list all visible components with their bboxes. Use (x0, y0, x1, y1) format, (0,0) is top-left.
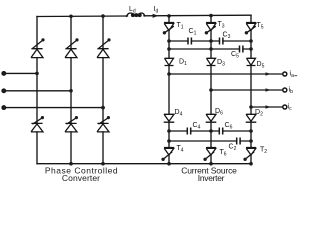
svg-text:D2: D2 (255, 109, 263, 118)
node C2 line leg3 (249, 139, 253, 143)
svg-text:T1: T1 (177, 22, 184, 31)
wire inverter leg 3 (D2 to T2) (250, 122, 252, 147)
thyristor T3 (205, 23, 216, 35)
wire inverter leg 2 (T3 to D3) (210, 31, 212, 58)
diode D3 (207, 58, 216, 65)
wire inverter leg 2 (T3 anode) (210, 16, 212, 23)
terminal input c (2, 106, 6, 110)
wire output phase a (169, 73, 283, 75)
svg-text:C6: C6 (225, 122, 233, 131)
arrow ib (266, 88, 271, 92)
arrow ic (266, 105, 271, 109)
diode D4 (164, 114, 175, 122)
wire inverter leg 1 (D1 to D4) (168, 66, 170, 114)
wire converter leg 1 middle (36, 58, 38, 124)
svg-text:T2: T2 (260, 147, 267, 156)
node C5 line leg2 (209, 47, 213, 51)
terminal input b (2, 89, 6, 93)
node top rail leg3 (101, 14, 105, 18)
svg-text:D4: D4 (175, 109, 183, 118)
capacitor C6 plates (219, 128, 222, 135)
node C2 line leg1 (167, 139, 171, 143)
wire converter leg 1 lower (36, 132, 38, 164)
wire converter leg 3 middle (102, 58, 104, 124)
node output b (209, 88, 213, 92)
svg-text:ia: ia (290, 71, 295, 80)
svg-text:T5: T5 (257, 22, 264, 31)
thyristor T1 (163, 23, 174, 35)
diode D6 (206, 114, 217, 122)
node C4 line leg1 (167, 129, 171, 133)
svg-text:T4: T4 (177, 145, 184, 154)
terminal output c (283, 105, 287, 109)
capacitor C5 plates (240, 46, 243, 53)
node top rail T1 (167, 14, 171, 18)
node C1 line leg2 (209, 39, 213, 43)
node output a (167, 72, 171, 76)
svg-text:D1: D1 (179, 59, 187, 68)
thyristor T2 (243, 148, 256, 162)
wire converter leg 1 upper (36, 17, 38, 49)
node bottom rail T2 (249, 162, 253, 166)
node top rail leg2 (69, 14, 73, 18)
node input b (69, 89, 73, 93)
arrow ia (266, 72, 271, 76)
capacitor C4 plates (187, 128, 190, 135)
thyristor SCR converter top 1 (31, 38, 45, 57)
wire input phase a (6, 72, 38, 74)
svg-text:T3: T3 (218, 21, 225, 30)
node input a (35, 72, 39, 76)
wire inverter leg 2 (D3 to D6) (210, 66, 212, 114)
svg-text:ic: ic (288, 104, 293, 113)
svg-text:Inverter: Inverter (198, 173, 225, 183)
thyristor T4 (161, 148, 174, 162)
svg-text:C1: C1 (189, 28, 197, 37)
node C5 line leg3 (249, 47, 253, 51)
thyristor SCR converter top 2 (65, 38, 79, 57)
diode D2 (246, 114, 257, 122)
node bottom rail leg3 (101, 162, 105, 166)
diode D1 (165, 58, 174, 65)
svg-text:D5: D5 (257, 61, 265, 70)
thyristor SCR converter bottom 2 (65, 116, 78, 132)
svg-text:C2: C2 (229, 144, 237, 153)
wire inverter leg 3 (T2 to rail) (250, 155, 252, 164)
diode D5 (247, 58, 256, 65)
svg-text:Id: Id (154, 6, 159, 15)
wire inverter leg 1 (T4 to rail) (168, 155, 170, 164)
thyristor T5 (245, 23, 256, 35)
wire inverter leg 1 (T1 anode) (168, 16, 170, 23)
svg-text:C4: C4 (193, 122, 201, 131)
wire converter leg 2 upper (70, 16, 72, 48)
wire converter leg 2 middle (70, 58, 72, 124)
svg-text:Converter: Converter (62, 173, 100, 183)
node C5 line leg1 (167, 47, 171, 51)
wire capacitor line C1-C3 (169, 40, 251, 42)
wire capacitor line C2 (169, 140, 251, 142)
wire converter leg 3 upper (102, 16, 104, 49)
node C4 line leg2 (209, 129, 213, 133)
wire converter leg 2 lower (70, 132, 72, 164)
wire converter leg 3 lower (102, 132, 104, 164)
thyristor SCR converter bottom 1 (31, 116, 44, 132)
wire input phase c (6, 107, 104, 109)
node bottom rail T4 (167, 162, 171, 166)
wire bottom rail (37, 163, 251, 165)
wire capacitor line C5 (169, 48, 251, 50)
inductor Ld (127, 13, 145, 17)
node input c (101, 106, 105, 110)
wire inverter leg 1 (T1 to D1) (168, 31, 170, 58)
wire input phase b (6, 90, 72, 92)
capacitor C3 plates (220, 38, 223, 45)
wire capacitor line C4-C6 (169, 130, 251, 132)
wire inverter leg 3 (T5 anode) (250, 15, 252, 22)
terminal output b (283, 88, 287, 92)
wire top rail inverter section (144, 14, 251, 17)
node bottom rail T6 (209, 162, 213, 166)
wire inverter leg 3 (D5 to D2) (250, 66, 252, 114)
wire inverter leg 1 (D4 to T4) (168, 122, 170, 147)
capacitor C1 plates (188, 38, 191, 45)
svg-text:T6: T6 (220, 149, 227, 158)
node bottom rail leg2 (69, 162, 73, 166)
thyristor SCR converter bottom 3 (97, 116, 110, 132)
svg-text:C5: C5 (231, 51, 239, 60)
wire output phase c (251, 106, 283, 108)
svg-text:D3: D3 (217, 59, 225, 68)
svg-text:ib: ib (289, 87, 294, 96)
wire inverter leg 2 (D6 to T6) (210, 122, 212, 147)
wire output phase b (211, 89, 283, 91)
terminal output a (283, 72, 287, 76)
wire top rail converter section (37, 15, 128, 18)
svg-text:C3: C3 (223, 32, 231, 41)
node C3 line leg3 (249, 39, 253, 43)
capacitor C2 plates (237, 138, 240, 145)
wire inverter leg 3 (T5 to D5) (250, 31, 252, 58)
node C1 line leg1 (167, 39, 171, 43)
arrow Id (153, 14, 159, 18)
wire inverter leg 2 (T6 to rail) (210, 155, 212, 164)
node output c (249, 105, 253, 109)
thyristor T6 (203, 148, 216, 162)
node top rail T3 (209, 14, 213, 18)
thyristor SCR converter top 3 (97, 38, 111, 57)
svg-text:D6: D6 (215, 108, 223, 117)
node C6 line leg3 (249, 129, 253, 133)
terminal input a (2, 72, 6, 76)
noise dash after ia (294, 75, 297, 77)
